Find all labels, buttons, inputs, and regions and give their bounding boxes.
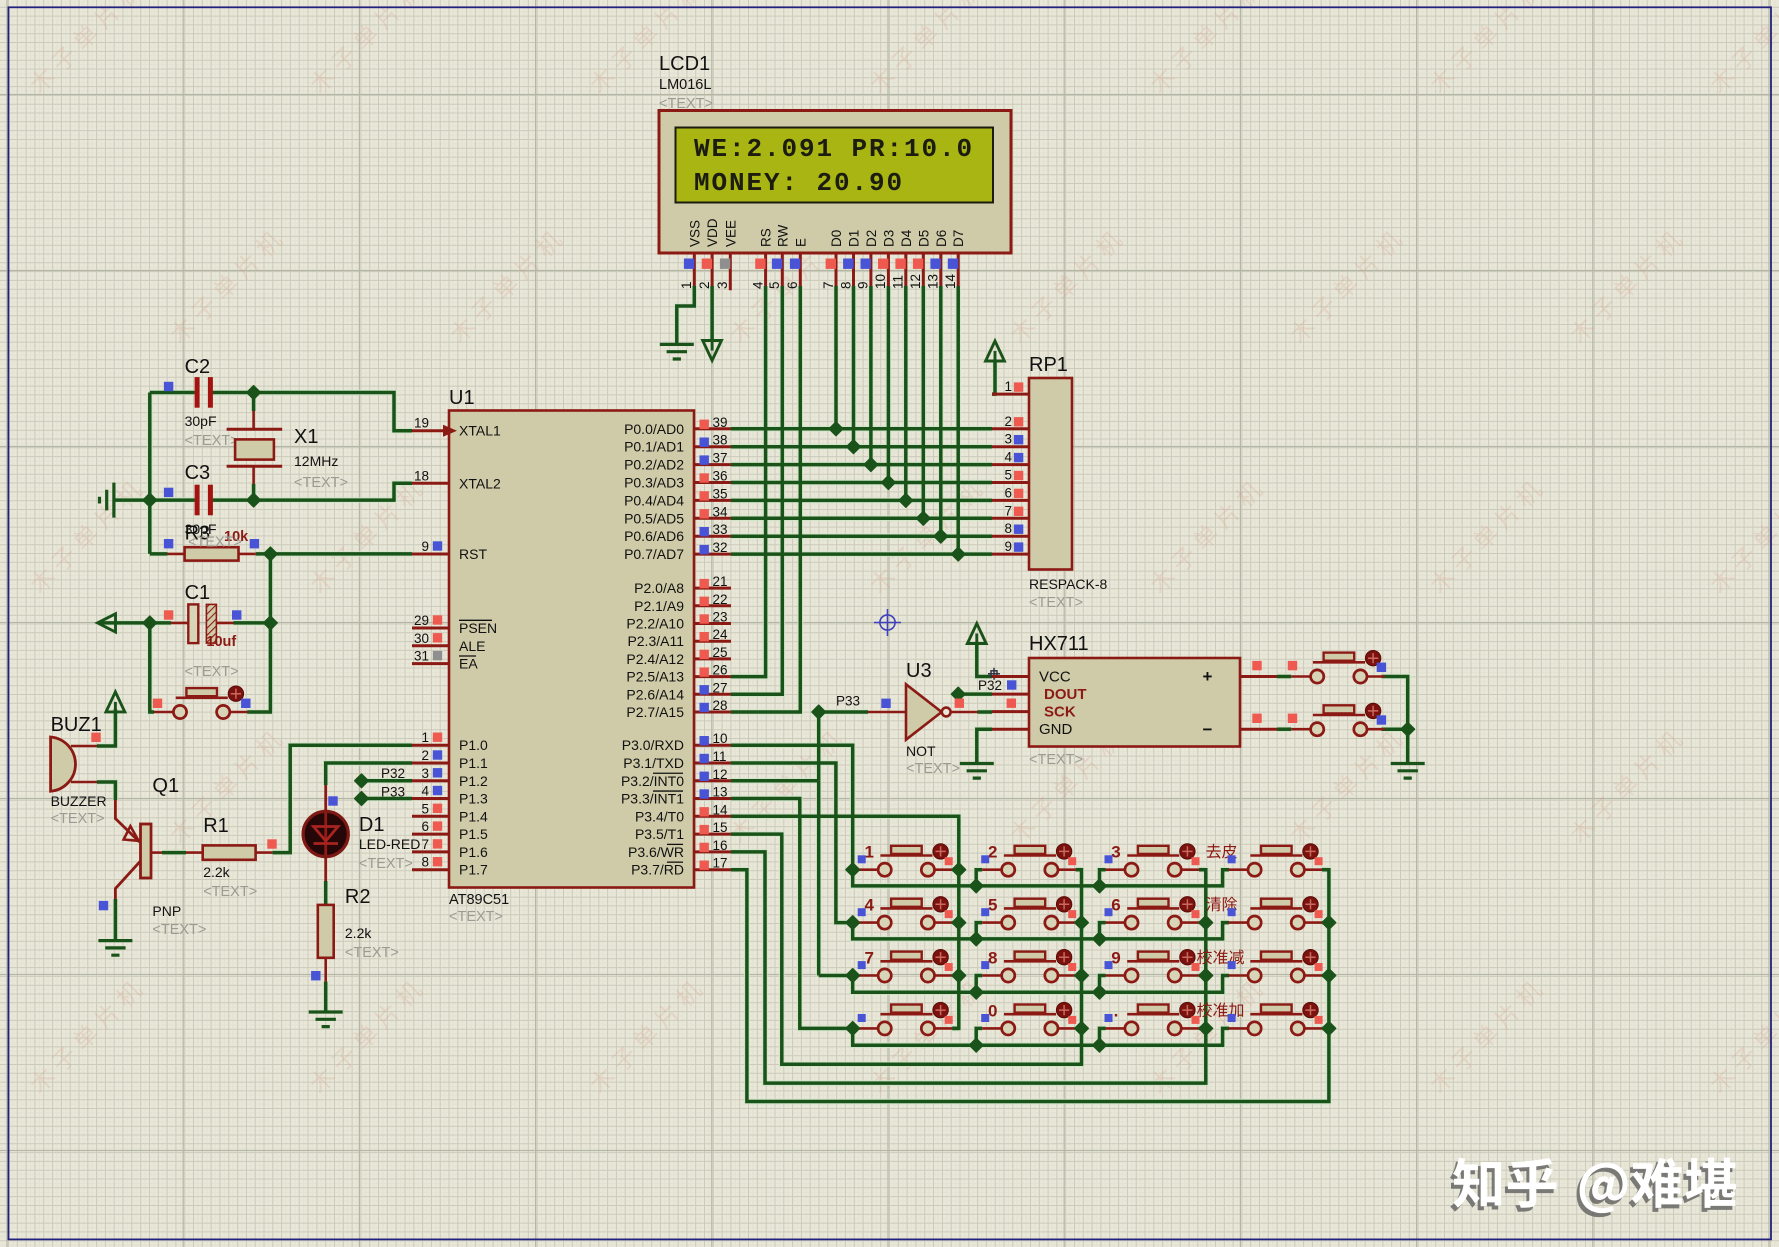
wire keypad row2 col3 left step — [1100, 923, 1106, 939]
button 校准加 cap — [1261, 1005, 1292, 1013]
svg-text:P3.2/INT0: P3.2/INT0 — [621, 773, 684, 789]
svg-text:P32: P32 — [381, 766, 405, 781]
svg-text:13: 13 — [926, 274, 941, 289]
svg-text:P2.7/A15: P2.7/A15 — [626, 704, 684, 720]
svg-text:P3.6/WR: P3.6/WR — [628, 844, 684, 860]
op-amp U3 NOT gate — [868, 711, 978, 714]
button RESET cap — [186, 688, 217, 696]
svg-text:<TEXT>: <TEXT> — [188, 535, 242, 551]
svg-text:WE:2.091 PR:10.0: WE:2.091 PR:10.0 — [694, 134, 974, 164]
svg-text:P33: P33 — [381, 785, 405, 800]
LED D1 — [324, 785, 327, 881]
wire load buttons to ground — [1381, 677, 1407, 764]
button 校准减 actuator — [1303, 950, 1318, 965]
wire keypad row4 col3 left step — [1100, 1028, 1106, 1045]
wire keypad r3c2 right joint — [1076, 974, 1082, 978]
wire R3 left — [150, 552, 168, 556]
svg-text:7: 7 — [421, 837, 429, 852]
wire R2 to ground — [324, 982, 328, 1012]
svg-text:9: 9 — [421, 539, 429, 554]
svg-text:X1: X1 — [294, 426, 318, 448]
button blank actuator — [933, 1002, 948, 1017]
svg-text:LED-RED: LED-RED — [359, 836, 420, 852]
svg-text:1: 1 — [864, 843, 873, 862]
wire net P33 stub at P1.3 — [362, 797, 413, 801]
svg-text:VSS: VSS — [687, 220, 702, 247]
LCD1 pin stubs — [694, 253, 958, 290]
capacitor C1 electrolytic — [171, 622, 234, 625]
svg-text:4: 4 — [1004, 450, 1012, 465]
button LOAD- cap — [1324, 705, 1355, 713]
svg-text:15: 15 — [713, 820, 728, 835]
svg-text:<TEXT>: <TEXT> — [203, 884, 257, 900]
wire keypad r4c2 right joint — [1076, 1027, 1082, 1031]
svg-text:9: 9 — [856, 281, 871, 289]
wire LCD D6 to P0.6 bus — [939, 286, 943, 536]
ground below R2 — [309, 1012, 343, 1027]
svg-text:8: 8 — [1004, 521, 1012, 536]
svg-text:DOUT: DOUT — [1044, 686, 1087, 703]
subcircuit origin cross at HX711 — [988, 668, 1000, 680]
wire keypad r1c4 right joint — [1322, 868, 1329, 872]
svg-text:<TEXT>: <TEXT> — [449, 909, 503, 925]
wire keypad r1c2 right joint — [1076, 868, 1082, 872]
junction nodes — [143, 386, 1336, 1052]
svg-text:RP1: RP1 — [1029, 354, 1068, 376]
svg-text:11: 11 — [713, 749, 727, 764]
svg-text:<TEXT>: <TEXT> — [152, 922, 206, 938]
button 校准加 contacts — [1229, 1027, 1323, 1030]
wire LCD D2 to P0.2 bus — [869, 286, 873, 465]
svg-text:P0.2/AD2: P0.2/AD2 — [624, 457, 684, 473]
svg-text:P0.4/AD4: P0.4/AD4 — [624, 492, 684, 508]
svg-text:31: 31 — [414, 649, 429, 664]
wire keypad row4 col2 left step — [976, 1028, 982, 1045]
wire RP1 pin1 power — [992, 362, 995, 395]
wire D1 cathode to R2 — [324, 881, 328, 905]
svg-text:P2.0/A8: P2.0/A8 — [634, 580, 684, 596]
svg-text:30pF: 30pF — [185, 413, 217, 429]
svg-text:5: 5 — [1004, 468, 1012, 483]
wire P3.2 riser — [817, 781, 821, 976]
button . cap — [1138, 1005, 1169, 1013]
svg-text:P1.2: P1.2 — [459, 773, 488, 789]
svg-text:<TEXT>: <TEXT> — [51, 811, 105, 827]
wire buzzer bottom to Q1 emitter — [97, 782, 115, 800]
svg-text:3: 3 — [1004, 432, 1012, 447]
svg-text:38: 38 — [713, 433, 728, 448]
wire node down to P3.2 net — [817, 712, 821, 781]
svg-text:E: E — [793, 238, 808, 247]
power terminal above RP1 — [986, 341, 1005, 361]
svg-text:<TEXT>: <TEXT> — [1029, 752, 1083, 768]
svg-text:D0: D0 — [829, 230, 844, 247]
wire keypad r2c3 right joint — [1199, 921, 1206, 925]
svg-text:8: 8 — [988, 949, 997, 968]
power terminal LCD VDD (down arrow) — [703, 341, 722, 361]
svg-text:4: 4 — [750, 281, 765, 289]
button 6 cap — [1138, 899, 1169, 907]
button 8 contacts — [982, 974, 1075, 977]
button 校准加 actuator — [1303, 1002, 1318, 1017]
wire LCD D7 to P0.7 bus — [956, 286, 960, 554]
svg-text:7: 7 — [821, 281, 836, 289]
svg-text:R1: R1 — [203, 815, 229, 837]
wire C1 right — [234, 621, 271, 625]
svg-text:P2.2/A10: P2.2/A10 — [626, 616, 684, 632]
button LOAD- contacts — [1291, 728, 1385, 731]
button 7 cap — [891, 952, 922, 960]
svg-text:12: 12 — [908, 274, 923, 289]
wire U1 P3.7 keypad column 4 — [731, 870, 1329, 1102]
button blank contacts — [859, 1027, 953, 1030]
svg-text:D7: D7 — [951, 230, 966, 247]
button 7 actuator — [933, 950, 948, 965]
svg-text:LM016L: LM016L — [659, 77, 711, 93]
svg-text:29: 29 — [414, 613, 429, 628]
button 清除 actuator — [1303, 897, 1318, 912]
wire LCD D5 to P0.5 bus — [922, 286, 926, 518]
svg-text:14: 14 — [943, 273, 958, 289]
button 1 contacts — [859, 868, 953, 871]
svg-text:P1.1: P1.1 — [459, 755, 488, 771]
wire HX711 minus to button — [1277, 727, 1291, 731]
HX711 pin stubs — [992, 677, 1277, 730]
button . contacts — [1106, 1027, 1200, 1030]
svg-text:1: 1 — [1004, 379, 1012, 394]
button 6 actuator — [1180, 897, 1195, 912]
wire keypad r2c4 right joint — [1322, 921, 1329, 925]
svg-text:Q1: Q1 — [152, 775, 179, 797]
svg-text:3: 3 — [421, 766, 429, 781]
svg-text:9: 9 — [1111, 949, 1120, 968]
wire keypad r2c1 right joint — [952, 921, 959, 925]
svg-text:21: 21 — [713, 574, 728, 589]
svg-text:25: 25 — [713, 645, 728, 660]
wire HX711 GND to ground — [977, 729, 992, 763]
svg-text:PNP: PNP — [152, 903, 181, 919]
HX711 module — [1029, 658, 1240, 747]
svg-text:GND: GND — [1039, 721, 1073, 738]
svg-text:P1.4: P1.4 — [459, 808, 488, 824]
svg-text:1: 1 — [421, 730, 429, 745]
svg-text:P3.7/RD: P3.7/RD — [631, 862, 684, 878]
node NOT input P33 — [812, 705, 826, 719]
button 3 cap — [1138, 846, 1169, 854]
svg-text:26: 26 — [713, 663, 728, 678]
wire R1 to U1 P1.0 — [272, 745, 412, 852]
button 清除 cap — [1261, 899, 1292, 907]
button 清除 contacts — [1229, 921, 1323, 924]
wire Q1 base to R1 — [162, 851, 186, 855]
wire LCD VDD power — [710, 286, 714, 342]
svg-text:U3: U3 — [906, 660, 932, 682]
svg-text:LCD1: LCD1 — [659, 53, 710, 75]
button 0 actuator — [1056, 1002, 1071, 1017]
button 去皮 cap — [1261, 846, 1292, 854]
input terminal arrow at C1 — [98, 614, 116, 632]
button 5 contacts — [982, 921, 1075, 924]
svg-text:3: 3 — [715, 281, 730, 289]
wire U1 P3.6 keypad column 3 — [731, 852, 1206, 1083]
svg-text:+: + — [1203, 667, 1213, 686]
wire ground to C3 line — [114, 498, 150, 502]
svg-text:35: 35 — [713, 486, 728, 501]
wire U1 P0.5 to RP1 pin 7 — [731, 517, 992, 521]
wire LCD D3 to P0.3 bus — [887, 286, 891, 483]
wire U1 P0.7 to RP1 pin 9 — [731, 552, 992, 556]
wire U1 P0.3 to RP1 pin 5 — [731, 481, 992, 485]
svg-text:6: 6 — [1004, 485, 1012, 500]
wire keypad row2 col2 left step — [976, 923, 982, 939]
capacitor C3 — [195, 485, 200, 516]
svg-text:19: 19 — [414, 416, 429, 431]
button RESET actuator — [228, 686, 243, 701]
svg-text:RS: RS — [759, 228, 774, 247]
wire LCD RW to U1 P2.6 — [731, 286, 782, 694]
svg-text:RW: RW — [775, 224, 790, 247]
svg-text:ALE: ALE — [459, 638, 485, 654]
svg-text:3: 3 — [1111, 843, 1120, 862]
svg-text:10: 10 — [713, 731, 728, 746]
transistor Q1 PNP — [141, 824, 152, 878]
button 去皮 actuator — [1303, 844, 1318, 859]
svg-text:<TEXT>: <TEXT> — [359, 856, 413, 872]
node P32 — [355, 774, 369, 788]
wire keypad r4c4 right joint — [1322, 1027, 1329, 1031]
svg-text:C2: C2 — [185, 356, 211, 378]
svg-text:22: 22 — [713, 592, 728, 607]
wire keypad row3 col2 left step — [976, 976, 982, 993]
svg-text:2: 2 — [421, 748, 429, 763]
button 8 cap — [1015, 952, 1046, 960]
svg-text:10: 10 — [873, 274, 888, 289]
button 9 actuator — [1180, 950, 1195, 965]
wire Q1 collector to ground — [114, 899, 118, 941]
resistor R3 — [168, 553, 256, 556]
svg-text:VCC: VCC — [1039, 669, 1071, 686]
svg-text:P3.4/T0: P3.4/T0 — [635, 808, 684, 824]
svg-text:P2.3/A11: P2.3/A11 — [627, 633, 684, 649]
svg-text:5: 5 — [421, 801, 429, 816]
button 2 cap — [1015, 846, 1046, 854]
svg-text:2.2k: 2.2k — [345, 925, 372, 941]
wire C2 right to XTAL1 — [213, 393, 413, 431]
crystal X1 — [227, 429, 283, 466]
svg-text:<TEXT>: <TEXT> — [1029, 595, 1083, 611]
wire U1 P3.5 keypad column 2 — [731, 834, 1082, 1064]
svg-text:P2.6/A14: P2.6/A14 — [626, 686, 684, 702]
svg-text:RST: RST — [459, 546, 487, 562]
wire U1 P3.1 keypad row 2 — [731, 763, 1229, 939]
svg-text:U1: U1 — [449, 387, 475, 409]
resistor R1 — [186, 851, 272, 854]
button 1 cap — [891, 846, 922, 854]
ground at load cell buttons — [1391, 764, 1425, 779]
origin marker — [874, 609, 901, 636]
button . actuator — [1180, 1002, 1195, 1017]
svg-text:P0.0/AD0: P0.0/AD0 — [624, 421, 684, 437]
wire keypad r4c1 right joint — [952, 1027, 959, 1031]
svg-text:MONEY: 20.90: MONEY: 20.90 — [694, 168, 904, 198]
svg-text:9: 9 — [1004, 539, 1012, 554]
node load button minus junction — [1401, 722, 1415, 736]
svg-text:2: 2 — [988, 843, 997, 862]
svg-text:32: 32 — [713, 540, 728, 555]
svg-text:D6: D6 — [934, 230, 949, 247]
svg-text:<TEXT>: <TEXT> — [294, 475, 348, 491]
svg-text:XTAL1: XTAL1 — [459, 423, 501, 439]
wire R3 right to RST — [256, 552, 412, 556]
wire LCD D1 to P0.1 bus — [852, 286, 856, 447]
button LOAD- actuator — [1365, 703, 1380, 718]
svg-text:33: 33 — [713, 522, 728, 537]
wire HX711 plus to button — [1277, 675, 1291, 679]
svg-text:4: 4 — [864, 896, 874, 915]
svg-text:23: 23 — [713, 610, 728, 625]
svg-text:P0.7/AD7: P0.7/AD7 — [624, 546, 684, 562]
resistor R2 — [324, 905, 327, 982]
wire C1 left vertical to reset button — [150, 623, 154, 712]
svg-text:NOT: NOT — [906, 743, 936, 759]
svg-text:PSEN: PSEN — [459, 620, 497, 636]
RP1 pin stubs — [992, 394, 1029, 554]
wire node to NOT input — [819, 710, 868, 714]
svg-text:14: 14 — [713, 802, 729, 817]
svg-text:<TEXT>: <TEXT> — [185, 664, 239, 680]
svg-text:10uf: 10uf — [206, 634, 236, 650]
svg-text:12MHz: 12MHz — [294, 453, 338, 469]
svg-text:P1.0: P1.0 — [459, 737, 488, 753]
wire C3 right to XTAL2 — [213, 483, 413, 500]
svg-text:13: 13 — [713, 785, 728, 800]
button LOAD+ contacts — [1291, 675, 1385, 678]
button 2 contacts — [982, 868, 1075, 871]
svg-text:5: 5 — [767, 281, 782, 289]
svg-text:D3: D3 — [881, 230, 896, 247]
button 4 cap — [891, 899, 922, 907]
svg-text:D2: D2 — [864, 230, 879, 247]
svg-text:D1: D1 — [359, 814, 385, 836]
svg-text:18: 18 — [414, 468, 429, 483]
wire keypad row1 col2 left step — [976, 870, 982, 886]
wire U1 P0.4 to RP1 pin 6 — [731, 499, 992, 503]
button 5 actuator — [1056, 897, 1071, 912]
svg-text:0: 0 — [988, 1001, 997, 1020]
power terminal at buzzer — [106, 692, 125, 712]
svg-text:5: 5 — [988, 896, 997, 915]
svg-text:P2.4/A12: P2.4/A12 — [626, 651, 684, 667]
zhihu watermark — [1450, 1162, 1733, 1218]
button 0 contacts — [982, 1027, 1075, 1030]
svg-text:2: 2 — [697, 281, 712, 289]
svg-text:<TEXT>: <TEXT> — [185, 433, 239, 449]
svg-text:BUZZER: BUZZER — [51, 793, 107, 809]
button 1 actuator — [933, 844, 948, 859]
wire C3 left — [150, 498, 195, 502]
wire net P32 stub at P1.2 — [362, 779, 413, 783]
svg-text:P2.1/A9: P2.1/A9 — [634, 598, 684, 614]
button 2 actuator — [1056, 844, 1071, 859]
svg-text:C1: C1 — [185, 582, 211, 604]
wire LCD RS to U1 P2.5 — [731, 286, 766, 677]
wire C2 left — [150, 391, 195, 395]
button 9 cap — [1138, 952, 1169, 960]
svg-text:P3.3/INT1: P3.3/INT1 — [621, 791, 684, 807]
svg-text:34: 34 — [713, 504, 729, 519]
svg-text:17: 17 — [713, 856, 728, 871]
button 3 actuator — [1180, 844, 1195, 859]
U1 left pin stubs — [412, 431, 449, 870]
svg-text:P0.1/AD1: P0.1/AD1 — [624, 439, 684, 455]
button 4 actuator — [933, 897, 948, 912]
svg-text:VDD: VDD — [705, 218, 720, 247]
wire keypad r4c3 right joint — [1199, 1027, 1206, 1031]
U1 AT89C51 microcontroller — [449, 411, 694, 888]
svg-text:7: 7 — [864, 949, 873, 968]
wire LCD D4 to P0.4 bus — [904, 286, 908, 500]
svg-text:D5: D5 — [916, 230, 931, 247]
svg-text:27: 27 — [713, 680, 728, 695]
button 去皮 contacts — [1229, 868, 1323, 871]
svg-text:28: 28 — [713, 698, 728, 713]
node P33 — [355, 792, 369, 806]
svg-text:<TEXT>: <TEXT> — [906, 761, 960, 777]
wire left vertical C2-C3-R3 — [148, 393, 152, 554]
svg-text:8: 8 — [838, 281, 853, 289]
svg-text:2.2k: 2.2k — [203, 864, 230, 880]
U1 right pin stubs — [694, 429, 731, 870]
wire U1 P0.1 to RP1 pin 3 — [731, 445, 992, 449]
wire keypad r2c2 right joint — [1076, 921, 1082, 925]
wire U1 P3.2 keypad row 3 — [731, 781, 1229, 992]
wire RST vertical to reset button — [247, 554, 270, 712]
svg-text:P3.0/RXD: P3.0/RXD — [622, 737, 684, 753]
svg-text:HX711: HX711 — [1029, 633, 1089, 655]
wire buzzer top to power — [97, 709, 115, 746]
svg-text:24: 24 — [713, 627, 729, 642]
svg-text:P33: P33 — [836, 694, 860, 709]
svg-text:6: 6 — [1111, 896, 1120, 915]
wire LCD D0 to P0.0 bus — [834, 286, 838, 429]
button 8 actuator — [1056, 950, 1071, 965]
button 6 contacts — [1106, 921, 1200, 924]
svg-text:D4: D4 — [899, 229, 914, 247]
svg-text:P3.5/T1: P3.5/T1 — [635, 826, 684, 842]
wire U1 P3.4 keypad column 1 — [731, 816, 959, 1028]
svg-text:C3: C3 — [185, 462, 211, 484]
wire U1 P3.3 keypad row 4 — [731, 799, 1229, 1046]
button RESET contacts — [154, 711, 248, 714]
button 校准减 cap — [1261, 952, 1292, 960]
svg-text:P1.5: P1.5 — [459, 826, 488, 842]
svg-text:<TEXT>: <TEXT> — [659, 96, 713, 112]
svg-text:P1.6: P1.6 — [459, 844, 488, 860]
wire U1 P0.6 to RP1 pin 8 — [731, 534, 992, 538]
svg-text:EA: EA — [459, 656, 478, 672]
button 7 contacts — [859, 974, 953, 977]
resistor pack RP1 RESPACK-8 — [1029, 378, 1072, 570]
svg-text:P1.3: P1.3 — [459, 791, 488, 807]
svg-text:7: 7 — [1004, 503, 1012, 518]
wire HX711 DOUT — [958, 692, 992, 696]
svg-text:36: 36 — [713, 469, 728, 484]
button 9 contacts — [1106, 974, 1200, 977]
wire LCD E to U1 P2.7 — [731, 286, 800, 712]
button 4 contacts — [859, 921, 953, 924]
svg-text:30: 30 — [414, 631, 429, 646]
button 5 cap — [1015, 899, 1046, 907]
